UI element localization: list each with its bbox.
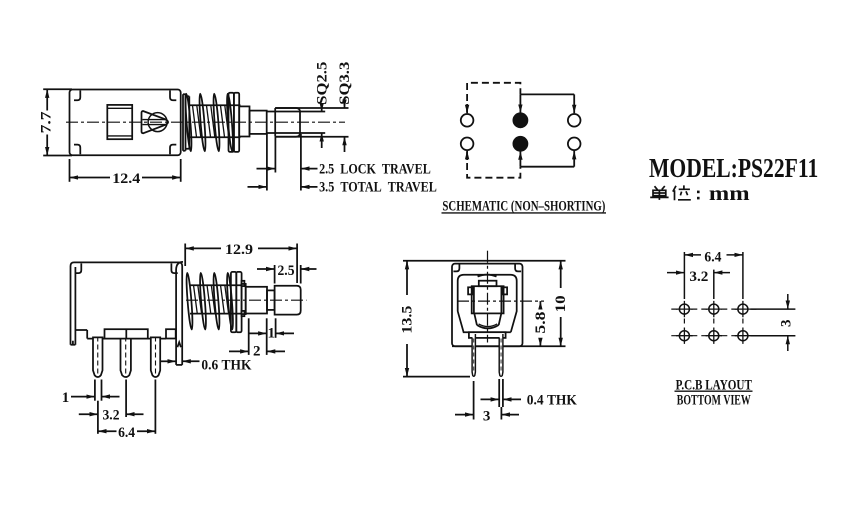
- flange tab bottom: [242, 311, 245, 316]
- glyph dan top dots: [655, 186, 665, 190]
- 3 pitch extension lines (front): [473, 381, 475, 420]
- collar block: [239, 106, 249, 136]
- spring coil 4 (view B): [226, 273, 234, 330]
- 5.8 dimension line with arrows: [539, 301, 541, 307]
- vertical centerline (front): [487, 251, 489, 343]
- pin right centerline dashes: [500, 339, 502, 373]
- body bottom edge extended right: [452, 345, 566, 347]
- PCB extension lines up: [683, 252, 685, 299]
- bracket snap wedge: [177, 342, 181, 347]
- body bottom edge upper level: [75, 329, 87, 331]
- centerline axis (view B): [186, 299, 307, 301]
- plunger band bottom edge: [190, 136, 241, 138]
- glyph dan box: [653, 190, 666, 195]
- cap tab (front): [479, 281, 497, 287]
- 3.5 total travel arrows: [248, 186, 267, 188]
- spring coil 2 (view B): [199, 273, 207, 330]
- horizontal centerline axis: [66, 121, 345, 123]
- pin terminal open circle top-right: [568, 114, 581, 127]
- spring hatch (view B): [194, 285, 229, 314]
- plunger band bottom (view B): [190, 313, 241, 315]
- svg-text:6.4: 6.4: [704, 250, 721, 266]
- 6.4 span dimension line with arrows: [98, 430, 117, 432]
- 2.5 cap dimension arrows: [257, 268, 275, 270]
- spring coil 3: [212, 94, 220, 152]
- spring coil 2: [198, 94, 206, 152]
- cam slot line lower: [143, 124, 167, 126]
- body corner mark top-left: [75, 263, 81, 273]
- 13.5 dimension line with arrows: [406, 261, 408, 295]
- hole column vertical dashes between rows: [684, 319, 743, 327]
- 3 dimension arrows (PCB vertical): [787, 294, 789, 309]
- body bottom step: [86, 330, 88, 339]
- texts front view: [399, 295, 577, 424]
- svg-text:1: 1: [62, 390, 70, 406]
- hole B1: [679, 331, 689, 341]
- inner window double line bottom: [107, 135, 132, 137]
- pin terminal open circle top-left: [461, 114, 474, 127]
- svg-text:mm: mm: [709, 181, 750, 205]
- 3.2 dimension arrows (PCB): [667, 272, 684, 274]
- body bottom shelf: [87, 338, 166, 340]
- svg-text:2: 2: [253, 344, 261, 360]
- glyph wei li component: [678, 185, 691, 199]
- pin 3 centerline: [155, 337, 157, 374]
- glyph wei person radical: [673, 186, 676, 200]
- glyph dan box midline: [653, 192, 666, 194]
- mounting foot bottom close: [71, 341, 76, 345]
- pin 1 centerline: [97, 337, 99, 374]
- pin 2 centerline: [125, 337, 127, 374]
- svg-text:6.4: 6.4: [118, 425, 135, 441]
- svg-text:3.2: 3.2: [689, 269, 708, 285]
- svg-text:3.2: 3.2: [103, 408, 120, 424]
- push button cap top edge extended (SQ3.3 extension): [275, 107, 348, 109]
- lock cam triangle pointer: [142, 111, 169, 133]
- lock travel extension line C (stem end): [300, 134, 302, 191]
- bracket plate bottom close: [176, 364, 182, 366]
- inner window rectangle: [107, 105, 132, 139]
- 1 pin width arrows: [71, 396, 95, 398]
- body corner mark top-right: [171, 263, 177, 273]
- SQ3.3 dimension arrows: [344, 101, 346, 109]
- hole row 1 dashed axis: [671, 308, 756, 310]
- wire solid bottom to common: [519, 151, 521, 167]
- svg-text:SCHEMATIC (NON–SHORTING): SCHEMATIC (NON–SHORTING): [442, 198, 605, 214]
- PCB extension lines right: [750, 308, 795, 310]
- pin terminal open circle bottom-left: [461, 138, 474, 151]
- body corner mark top-left (front): [453, 264, 459, 271]
- wire arrow into pin top-left: [466, 104, 468, 113]
- wide shaft segment: [250, 111, 267, 134]
- 10 dimension line with arrows: [560, 261, 562, 288]
- neck segment top edge extended (SQ2.5 extension): [267, 111, 326, 113]
- svg-text:5.8: 5.8: [533, 312, 549, 334]
- 0.4 THK extension lines: [498, 379, 500, 407]
- 2.5 lock travel arrows: [257, 168, 276, 170]
- body corner mark bottom-left: [74, 145, 80, 155]
- texts bottom-left view: [62, 242, 295, 441]
- hole A2: [709, 304, 719, 314]
- svg-text:12.4: 12.4: [112, 171, 141, 187]
- svg-text:0.6 THK: 0.6 THK: [201, 358, 251, 374]
- wide shaft segment (view B): [246, 287, 267, 314]
- washer flange plate 2 (view B): [236, 272, 241, 332]
- pin 2: [121, 337, 131, 377]
- lock travel extension line B (2.5 ref): [274, 137, 276, 173]
- svg-text:2.5 LOCK TRAVEL: 2.5 LOCK TRAVEL: [319, 161, 431, 177]
- glyph dan bottom bar: [650, 196, 668, 198]
- svg-text:BOTTOM VIEW: BOTTOM VIEW: [677, 392, 751, 408]
- switch body outline (side view): [70, 90, 181, 156]
- inner left wall line: [74, 267, 76, 345]
- 2 segment dimension extension line: [248, 318, 250, 355]
- center platform between pins: [105, 329, 148, 338]
- hole crosses row 2: [676, 328, 751, 344]
- 7.7 dimension line with arrows: [46, 89, 48, 110]
- horizontal centerline (front): [457, 300, 544, 302]
- pin pitch extension lines (centers): [97, 401, 99, 434]
- base plate band: [469, 332, 506, 338]
- cap body (front): [472, 286, 504, 313]
- spring coil 3 (view B): [212, 273, 220, 330]
- pin terminal open circle bottom-right: [568, 138, 581, 151]
- flange tab top: [242, 281, 245, 286]
- bottom notch box right: [166, 329, 176, 338]
- svg-text:1: 1: [267, 325, 275, 341]
- svg-text:3: 3: [483, 408, 491, 424]
- dome below cap: [474, 313, 501, 325]
- bowl inner arc: [479, 324, 498, 327]
- spring wire hatch behind plunger: [193, 106, 229, 138]
- pin terminal filled circle bottom-middle: [513, 137, 527, 151]
- cap ear left: [468, 287, 473, 294]
- body outline top and sides: [71, 262, 183, 365]
- 12.4 dimension extension lines: [69, 159, 71, 182]
- body corner mark top-left: [74, 91, 80, 101]
- unit label (Chinese: dan-wei) drawn strokes: [650, 185, 691, 200]
- hole A1: [679, 304, 689, 314]
- wire dashed loop bottom: [467, 152, 520, 178]
- 0.6 THK dimension arrows: [161, 360, 177, 362]
- cap inner line right: [500, 286, 502, 313]
- svg-text:SQ3.3: SQ3.3: [337, 62, 353, 105]
- svg-text:MODEL:PS22F11: MODEL:PS22F11: [649, 153, 818, 183]
- 1 neck dimension extension lines: [266, 318, 268, 355]
- wire solid top to common: [519, 94, 521, 113]
- pin 1 (white filled over shelf): [93, 337, 103, 377]
- wire solid bottom to pin bottom-right: [520, 166, 574, 168]
- 7.7 dimension extension lines: [43, 88, 72, 90]
- push button cap (view B): [275, 286, 301, 315]
- bracket plate left line: [175, 270, 177, 365]
- lock travel extension line A (3.5 ref): [266, 134, 268, 191]
- mounting bracket plate pair at body right: [182, 94, 184, 151]
- 12.4 dimension line with arrows: [70, 177, 111, 179]
- pin width extension lines: [94, 380, 96, 401]
- spring coil 4: [226, 94, 234, 152]
- body corner mark top-right (front): [515, 264, 521, 271]
- glyph dan vertical stroke: [658, 190, 660, 200]
- svg-text:12.9: 12.9: [225, 242, 253, 258]
- push button cap bottom edge extended (SQ3.3 extension): [275, 136, 348, 138]
- pin terminal filled circle top-middle: [513, 113, 527, 127]
- inner opening with tapered floor: [458, 275, 517, 332]
- 12.9 dimension arrows: [185, 247, 221, 249]
- hole B2: [709, 331, 719, 341]
- schematic caption underlined: [442, 198, 605, 214]
- svg-text:2.5: 2.5: [278, 263, 295, 279]
- 3 pitch arrows (front): [455, 414, 474, 416]
- plunger hole arc behind cap: [478, 275, 497, 277]
- 2 segment dimension arrows: [229, 350, 249, 352]
- bowl outer arc: [477, 325, 499, 328]
- pin left centerline dashes: [473, 339, 475, 373]
- 1 neck dimension arrows: [249, 332, 267, 334]
- bracket plate top curl: [176, 262, 183, 270]
- wire solid top to pin top-right: [520, 93, 574, 95]
- fullwidth colon dots: [697, 191, 700, 194]
- svg-text:7.7: 7.7: [38, 111, 54, 134]
- body corner mark top-right: [170, 91, 176, 101]
- neck segment (view B): [267, 290, 275, 310]
- SQ2.5 dimension arrows: [321, 104, 323, 112]
- neck segment bottom edge extended (SQ2.5 extension): [267, 132, 326, 134]
- top extension line across: [403, 260, 566, 262]
- collar block (view B): [242, 284, 246, 314]
- spring coil 1 (view B): [185, 273, 193, 330]
- hole crosses row 1: [676, 301, 751, 317]
- washer flange plate 1: [229, 93, 234, 152]
- pin left (front): [472, 334, 475, 376]
- svg-text:0.4 THK: 0.4 THK: [527, 393, 577, 409]
- wire dashed loop top (movable contact path): [467, 83, 520, 112]
- bottom extension line at pin tips: [403, 376, 470, 378]
- pin 3: [151, 337, 160, 377]
- cam heart circle at apex: [148, 113, 167, 132]
- wire arrow into pin bottom-left: [466, 151, 468, 160]
- pin right (front): [499, 334, 503, 376]
- 6.4 dimension arrows (PCB): [684, 254, 701, 256]
- texts PCB view: [676, 250, 795, 409]
- washer flange plate 1 (view B): [231, 272, 236, 332]
- spring coil 1: [184, 94, 192, 152]
- svg-text:13.5: 13.5: [399, 306, 415, 334]
- svg-text:10: 10: [553, 295, 569, 312]
- body outline (front view): [452, 264, 523, 347]
- platform middle line (pin2 front edge): [125, 329, 127, 338]
- svg-text:SQ2.5: SQ2.5: [314, 62, 330, 105]
- push button cap outline: [275, 108, 300, 137]
- hole B3: [738, 331, 748, 341]
- inner window double line top: [107, 107, 132, 109]
- plunger band top (view B): [190, 284, 241, 286]
- 12.9 dimension extension lines: [184, 244, 186, 267]
- 2.5 cap dimension extension lines: [274, 265, 276, 284]
- cap ear right: [502, 287, 507, 294]
- hole A3: [738, 304, 748, 314]
- plunger band top edge: [190, 104, 241, 106]
- svg-text:3.5 TOTAL TRAVEL: 3.5 TOTAL TRAVEL: [319, 180, 437, 196]
- 3.2 pitch arrows: [79, 413, 98, 415]
- cap inner line left: [473, 286, 475, 313]
- svg-text:3: 3: [779, 320, 795, 328]
- cam slot line upper: [143, 119, 167, 121]
- 0.4 THK arrows: [481, 398, 500, 400]
- washer flange plate 2: [234, 93, 239, 152]
- hole row 2 dashed axis: [671, 335, 756, 337]
- body corner mark bottom-right: [170, 145, 176, 155]
